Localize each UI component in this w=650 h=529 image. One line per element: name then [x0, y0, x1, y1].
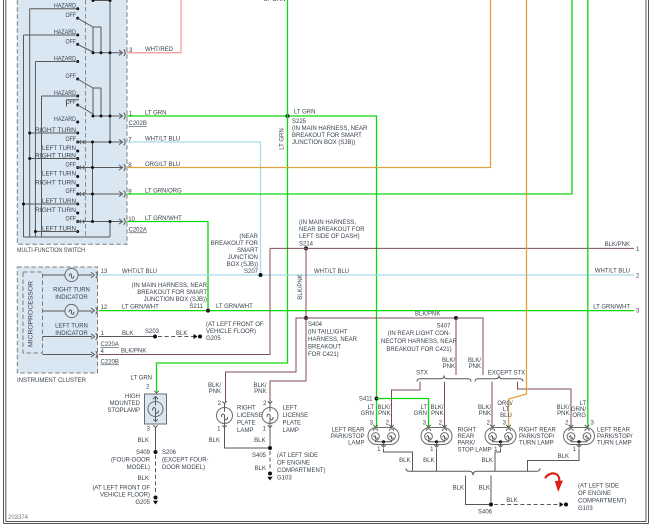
- svg-text:S404: S404: [308, 322, 323, 328]
- svg-text:GRN: GRN: [361, 411, 374, 417]
- wire pin10 to bottom bus: [109, 222, 111, 238]
- svg-text:LICENSE: LICENSE: [283, 413, 309, 419]
- svg-text:(AT LEFT SIDE: (AT LEFT SIDE: [578, 484, 619, 490]
- svg-text:LT GRN/WHT: LT GRN/WHT: [593, 305, 630, 311]
- switch internal vertical x93 upper: [92, 27, 94, 53]
- svg-text:PARK/: PARK/: [458, 441, 476, 447]
- svg-text:C202B: C202B: [129, 121, 147, 127]
- wire BLK dashed S409 to G205: [155, 455, 157, 494]
- brace rear lamp grounds: [406, 468, 540, 475]
- pin 8 row line: [77, 167, 123, 169]
- svg-text:RIGHT: RIGHT: [458, 428, 477, 434]
- splice S225: [286, 114, 290, 118]
- wire BLK brace to S406 right leg: [490, 476, 492, 505]
- wire BLK/PNK S407 right branch down to EXCEPT STX brace: [456, 318, 483, 375]
- rear lamp body at x=383.5: [368, 428, 399, 445]
- switch common rail B: [29, 9, 31, 237]
- svg-text:G103: G103: [277, 476, 292, 482]
- svg-text:2: 2: [636, 274, 640, 280]
- svg-text:4: 4: [101, 349, 105, 355]
- pin 10 connector arrow: [119, 219, 123, 224]
- pin 1 connector arrow: [119, 113, 123, 118]
- wire BLK/PNK S404 stub to right license plate lamp: [226, 318, 307, 403]
- svg-text:REAR: REAR: [458, 434, 475, 440]
- svg-text:BLK: BLK: [558, 454, 569, 460]
- svg-text:LAMP: LAMP: [283, 428, 299, 434]
- svg-text:VEHICLE FLOOR): VEHICLE FLOOR): [206, 329, 256, 335]
- svg-text:WHT/RED: WHT/RED: [145, 47, 174, 53]
- svg-text:MICROPROCESSOR: MICROPROCESSOR: [29, 280, 35, 347]
- svg-text:PARK/STOP/: PARK/STOP/: [597, 434, 633, 440]
- svg-text:BLK: BLK: [254, 438, 265, 444]
- svg-text:(EXCEPT FOUR-: (EXCEPT FOUR-: [162, 458, 209, 464]
- svg-text:BLK/PNK: BLK/PNK: [121, 349, 146, 355]
- svg-text:PNK: PNK: [431, 411, 443, 417]
- wire LT GRN S225 branch to high mounted stoplamp: [157, 0, 288, 392]
- svg-text:BLK: BLK: [209, 438, 220, 444]
- svg-text:BLK/: BLK/: [208, 383, 221, 389]
- svg-text:BLK: BLK: [453, 486, 464, 492]
- svg-text:12: 12: [101, 305, 108, 311]
- svg-text:TURN LAMP: TURN LAMP: [597, 441, 632, 447]
- svg-text:BREAKOUT FOR C421): BREAKOUT FOR C421): [386, 347, 451, 353]
- svg-text:NECTOR HARNESS, NEAR: NECTOR HARNESS, NEAR: [381, 339, 458, 345]
- pin 9 connector arrow: [119, 191, 123, 196]
- cluster pin 4 connector: [91, 352, 95, 357]
- splice S411: [375, 397, 379, 401]
- svg-text:3: 3: [591, 420, 595, 426]
- svg-text:(IN MAIN HARNESS, NEAR: (IN MAIN HARNESS, NEAR: [132, 283, 208, 289]
- svg-text:OFF: OFF: [66, 74, 77, 80]
- svg-text:HIGH: HIGH: [125, 394, 140, 400]
- svg-text:S203: S203: [145, 329, 160, 335]
- svg-text:S211: S211: [189, 304, 203, 310]
- svg-text:S409: S409: [136, 450, 151, 456]
- high mounted stoplamp: [145, 394, 167, 424]
- wire BLK lamp1 ground leg: [384, 449, 413, 472]
- pin 1 row line: [93, 115, 122, 117]
- svg-text:SMART: SMART: [237, 248, 258, 254]
- ground G205 at left front of vehicle floor: [194, 334, 198, 339]
- svg-text:WHT/LT BLU: WHT/LT BLU: [145, 137, 180, 143]
- wire BLK/PNK EXCEPT STX brace to left rear p/s/t lamp pin 2: [518, 382, 572, 427]
- svg-text:JUNCTION: JUNCTION: [228, 255, 258, 261]
- svg-text:TURN LAMP: TURN LAMP: [519, 441, 554, 447]
- svg-text:LEFT REAR: LEFT REAR: [597, 428, 631, 434]
- wire BLK dashed S405 to G103: [269, 451, 271, 470]
- rear lamp body at x=579: [564, 428, 595, 445]
- splice S211: [206, 309, 210, 313]
- wire BLK right license lamp to S405: [225, 428, 271, 448]
- switch bottom bus: [24, 236, 111, 238]
- svg-text:BLK: BLK: [176, 331, 187, 337]
- svg-text:DOOR MODEL): DOOR MODEL): [162, 465, 205, 471]
- switch top remnant: [93, 0, 110, 2]
- switch internal vertical x93 mid: [92, 88, 94, 116]
- svg-text:S411: S411: [359, 397, 373, 403]
- cluster pin 1 connector: [91, 334, 95, 339]
- svg-text:LT GRN: LT GRN: [145, 111, 166, 117]
- wire BLK/PNK cluster pin4 to S214: [99, 248, 270, 354]
- svg-text:1: 1: [101, 331, 105, 337]
- svg-text:BREAKOUT FOR SMART: BREAKOUT FOR SMART: [137, 290, 207, 296]
- svg-text:BREAKOUT: BREAKOUT: [308, 345, 341, 351]
- svg-text:S225: S225: [292, 119, 307, 125]
- svg-text:PNK: PNK: [443, 364, 455, 370]
- wire WHT/LT BLU from pin 7: [127, 142, 261, 275]
- svg-text:(FOUR-DOOR: (FOUR-DOOR: [111, 458, 151, 464]
- svg-text:1: 1: [377, 447, 381, 453]
- svg-text:BLK: BLK: [138, 438, 149, 444]
- svg-text:LEFT: LEFT: [283, 406, 298, 412]
- svg-text:S214: S214: [299, 241, 314, 247]
- svg-text:BLU: BLU: [500, 413, 512, 419]
- page frame right border: [648, 0, 650, 524]
- microprocessor block: [23, 272, 43, 353]
- wire LT GRN S411 branch to right rear lamp pin 3: [377, 399, 429, 428]
- svg-text:2: 2: [263, 401, 267, 407]
- svg-text:BOX (SJB)): BOX (SJB)): [227, 262, 258, 268]
- svg-text:1: 1: [636, 247, 640, 253]
- switch common rail C: [34, 62, 36, 238]
- svg-text:LT GRN/WHT: LT GRN/WHT: [145, 216, 182, 222]
- svg-text:G103: G103: [578, 506, 593, 512]
- svg-text:C202A: C202A: [129, 228, 147, 234]
- svg-text:MODEL): MODEL): [127, 465, 150, 471]
- svg-text:WHT/LT BLU: WHT/LT BLU: [122, 269, 157, 275]
- pin 9 row line: [77, 193, 123, 195]
- svg-text:S406: S406: [478, 510, 493, 516]
- wire LT GRN/ORG from pin 9: [127, 0, 573, 194]
- wire BLK dashed S203 to G205: [158, 336, 194, 338]
- svg-text:ORG/LT BLU: ORG/LT BLU: [145, 162, 180, 168]
- svg-text:S207: S207: [244, 269, 259, 275]
- svg-text:OF ENGINE: OF ENGINE: [578, 491, 611, 497]
- svg-text:JUNCTION BOX (SJB)): JUNCTION BOX (SJB)): [292, 140, 355, 146]
- svg-text:MULTI-FUNCTION SWITCH: MULTI-FUNCTION SWITCH: [17, 248, 85, 254]
- svg-text:PNK: PNK: [209, 389, 221, 395]
- splice S405: [268, 446, 272, 450]
- wire BLK lamp4 ground leg: [528, 449, 580, 472]
- pin 10 row line: [77, 221, 123, 223]
- multi-function switch inner dashed divider: [85, 0, 87, 237]
- svg-text:LT GRN/WHT: LT GRN/WHT: [122, 305, 159, 311]
- svg-text:PNK: PNK: [479, 411, 491, 417]
- left turn indicator lamp: [43, 310, 65, 312]
- instrument cluster housing: [17, 267, 97, 373]
- splice S407: [454, 316, 458, 320]
- svg-text:C220B: C220B: [101, 360, 119, 366]
- splice S409 / S206: [154, 450, 158, 454]
- svg-text:RIGHT: RIGHT: [237, 406, 256, 412]
- cluster pin 13 connector: [91, 272, 95, 277]
- cluster pin 12 connector: [91, 308, 95, 313]
- svg-text:VEHICLE FLOOR): VEHICLE FLOOR): [100, 493, 150, 499]
- svg-text:(AT LEFT FRONT OF: (AT LEFT FRONT OF: [206, 322, 264, 328]
- svg-text:LAMP: LAMP: [237, 428, 253, 434]
- svg-text:(IN MAIN HARNESS, NEAR: (IN MAIN HARNESS, NEAR: [292, 126, 368, 132]
- wire BLK/PNK EXCEPT STX brace to right rear p/s/t lamp pin 2: [491, 382, 493, 427]
- svg-text:1: 1: [573, 447, 577, 453]
- svg-text:LT GRN: LT GRN: [280, 128, 286, 149]
- wire BLK/PNK STX brace to right rear lamp pin 2: [444, 382, 446, 427]
- svg-text:WHT/LT BLU: WHT/LT BLU: [595, 269, 630, 275]
- wire BLK/PNK S407 down to STX brace: [455, 318, 457, 375]
- svg-text:LT GRN: LT GRN: [264, 0, 285, 3]
- wire LT GRN/ORG down to left rear p/s/t lamp pin 3: [587, 0, 589, 427]
- svg-text:OFF: OFF: [66, 13, 77, 19]
- wire ORG/LT BLU from pin 8: [127, 0, 491, 168]
- pin 7 connector arrow: [119, 139, 123, 144]
- svg-text:(AT LEFT SIDE: (AT LEFT SIDE: [277, 453, 318, 459]
- svg-text:BLK/: BLK/: [253, 383, 266, 389]
- svg-text:OF ENGINE: OF ENGINE: [277, 461, 310, 467]
- svg-text:LEFT REAR: LEFT REAR: [332, 428, 366, 434]
- svg-text:EXCEPT STX: EXCEPT STX: [488, 371, 525, 377]
- svg-text:G205: G205: [135, 500, 150, 506]
- svg-text:LEFT SIDE OF DASH): LEFT SIDE OF DASH): [299, 234, 360, 240]
- svg-text:2: 2: [146, 385, 150, 391]
- svg-text:BLK: BLK: [482, 458, 493, 464]
- svg-text:OFF: OFF: [66, 216, 77, 222]
- switch wiper rail x92.5 lower: [92, 142, 94, 222]
- multi-function switch S1 housing: [17, 0, 127, 244]
- svg-text:1: 1: [263, 427, 267, 433]
- wire WHT/LT BLU cluster pin13 to right edge pin 2: [99, 274, 634, 276]
- svg-text:LT GRN: LT GRN: [131, 376, 152, 382]
- wire ORG/LT BLU down to right rear p/s/t lamp pin 3: [509, 0, 527, 427]
- svg-text:BLK/PNK: BLK/PNK: [415, 312, 440, 318]
- ground G205 at left front of vehicle floor (stoplamp): [154, 496, 158, 500]
- wire BLK lamp3 ground leg: [495, 449, 501, 472]
- svg-text:LEFT TURN: LEFT TURN: [55, 324, 88, 330]
- svg-text:3: 3: [147, 427, 151, 433]
- svg-text:COMPARTMENT): COMPARTMENT): [277, 468, 325, 474]
- svg-text:LT GRN: LT GRN: [294, 109, 315, 115]
- page frame left border: [3, 0, 5, 524]
- svg-text:PLATE: PLATE: [283, 421, 302, 427]
- wire WHT/RED from pin 3: [127, 0, 182, 53]
- svg-text:PNK: PNK: [254, 389, 266, 395]
- pin 3 connector arrow: [119, 50, 123, 55]
- pin 8 connector arrow: [119, 165, 123, 170]
- svg-text:BLK/PNK: BLK/PNK: [605, 242, 630, 248]
- brace STX group: [417, 375, 471, 381]
- rear lamp body at x=436.5: [421, 428, 452, 445]
- svg-text:PLATE: PLATE: [237, 421, 256, 427]
- svg-text:S405: S405: [252, 453, 267, 459]
- svg-text:RIGHT TURN: RIGHT TURN: [35, 208, 76, 214]
- svg-text:3: 3: [636, 309, 640, 315]
- wire BLK stoplamp to S409: [155, 428, 157, 452]
- wire BLK/PNK STX brace to left rear lamp pin 2: [392, 382, 421, 427]
- wire BLK brace to S406 left leg: [466, 476, 492, 505]
- splice S207: [259, 273, 263, 277]
- svg-text:OFF: OFF: [66, 100, 77, 106]
- svg-text:ORG: ORG: [572, 413, 586, 419]
- svg-text:STOPLAMP: STOPLAMP: [107, 408, 140, 414]
- svg-text:BLK: BLK: [479, 486, 490, 492]
- svg-text:BLK: BLK: [122, 331, 133, 337]
- svg-text:LEFT TURN: LEFT TURN: [42, 171, 76, 177]
- svg-text:LAMP: LAMP: [348, 441, 364, 447]
- wire BLK lamp2 ground leg: [436, 449, 438, 472]
- svg-text:203374: 203374: [8, 515, 29, 521]
- wire BLK dashed S406 to G103: [494, 504, 559, 506]
- svg-text:RIGHT TURN: RIGHT TURN: [53, 288, 90, 294]
- rear lamp body at x=500.5: [485, 428, 516, 445]
- svg-text:OFF: OFF: [66, 189, 77, 195]
- wire BLK left license lamp to S405: [269, 428, 271, 448]
- svg-text:G205: G205: [206, 336, 221, 342]
- svg-text:OFF: OFF: [66, 162, 77, 168]
- svg-text:S206: S206: [162, 450, 177, 456]
- svg-text:(AT LEFT FRONT OF: (AT LEFT FRONT OF: [92, 486, 150, 492]
- svg-text:(IN MAIN HARNESS,: (IN MAIN HARNESS,: [299, 220, 356, 226]
- red annotation arrow to G103: [546, 473, 560, 482]
- svg-text:WHT/LT BLU: WHT/LT BLU: [314, 269, 349, 275]
- svg-text:BREAKOUT FOR: BREAKOUT FOR: [211, 241, 259, 247]
- splice S404: [304, 316, 308, 320]
- switch internal jog to x101 upper: [93, 26, 101, 28]
- svg-text:BLK: BLK: [138, 476, 149, 482]
- svg-text:(NEAR: (NEAR: [239, 234, 258, 240]
- svg-text:RIGHT TURN: RIGHT TURN: [35, 180, 76, 186]
- svg-text:1: 1: [217, 427, 221, 433]
- svg-text:S407: S407: [436, 324, 451, 330]
- svg-text:OFF: OFF: [66, 137, 77, 143]
- wire BLK/PNK S214 left branch to x270: [270, 247, 306, 249]
- detent bracket at OFF row: [67, 100, 80, 107]
- svg-text:BLK: BLK: [399, 458, 410, 464]
- svg-text:INDICATOR: INDICATOR: [55, 295, 88, 301]
- wire BLK/PNK S404 to S407: [306, 317, 456, 319]
- svg-text:BLK: BLK: [506, 498, 517, 504]
- wire BLK cluster pin1 to S203: [99, 336, 155, 338]
- svg-text:PARK/STOP/: PARK/STOP/: [519, 434, 555, 440]
- ground G103 at left side of engine compartment (license lamps): [268, 472, 272, 476]
- svg-text:HARNESS, NEAR: HARNESS, NEAR: [308, 337, 358, 343]
- splice S203: [153, 335, 157, 339]
- svg-text:GRN: GRN: [414, 411, 427, 417]
- svg-text:LT GRN/ORG: LT GRN/ORG: [145, 189, 182, 195]
- splice S214: [304, 246, 308, 250]
- switch common rail A: [23, 35, 25, 237]
- svg-text:PNK: PNK: [378, 411, 390, 417]
- stoplamp pin 3 exit: [153, 425, 157, 427]
- svg-text:STX: STX: [416, 371, 428, 377]
- pin 3 row line: [93, 52, 122, 54]
- svg-text:HAZARD: HAZARD: [54, 117, 77, 123]
- svg-text:(IN REAR LIGHT CON-: (IN REAR LIGHT CON-: [388, 331, 451, 337]
- svg-text:PNK: PNK: [469, 364, 481, 370]
- svg-text:LEFT TURN: LEFT TURN: [42, 146, 76, 152]
- svg-text:JUNCTION BOX (SJB)): JUNCTION BOX (SJB)): [144, 297, 207, 303]
- wire BLK/PNK S404 down to left license plate lamp: [270, 318, 306, 403]
- svg-text:C220A: C220A: [101, 342, 119, 348]
- svg-text:MOUNTED: MOUNTED: [110, 401, 141, 407]
- ground G103 at left side of engine compartment (rear lamps): [560, 502, 564, 507]
- svg-text:PARK/STOP: PARK/STOP: [331, 434, 365, 440]
- svg-text:COMPARTMENT): COMPARTMENT): [578, 499, 626, 505]
- brace EXCEPT STX group: [475, 375, 523, 381]
- microprocessor leads to pins 1 and 4: [43, 336, 93, 338]
- svg-text:FOR C421): FOR C421): [308, 352, 339, 358]
- svg-text:BLK: BLK: [255, 466, 266, 472]
- svg-text:PNK: PNK: [557, 411, 569, 417]
- right turn indicator lamp: [43, 274, 65, 276]
- svg-text:13: 13: [101, 269, 108, 275]
- svg-text:BLK/PNK: BLK/PNK: [298, 274, 304, 299]
- svg-text:RIGHT REAR: RIGHT REAR: [519, 428, 557, 434]
- wire LT GRN/WHT cluster pin12 to right edge pin 3: [99, 310, 634, 312]
- wire LT GRN from pin 1 to S411 and rear lamp: [127, 116, 377, 427]
- switch internal jog to x101 mid: [93, 87, 101, 89]
- pin 7 row line: [77, 141, 123, 143]
- svg-text:INSTRUMENT CLUSTER: INSTRUMENT CLUSTER: [17, 378, 87, 384]
- page frame bottom border: [4, 523, 649, 525]
- switch common rail D: [41, 96, 43, 237]
- svg-text:LT GRN/WHT: LT GRN/WHT: [216, 304, 253, 310]
- svg-text:OFF: OFF: [66, 39, 77, 45]
- svg-text:STOP LAMP: STOP LAMP: [458, 447, 492, 453]
- svg-text:1: 1: [430, 447, 434, 453]
- svg-text:BREAKOUT FOR SMART: BREAKOUT FOR SMART: [292, 133, 362, 139]
- svg-text:LICENSE: LICENSE: [237, 413, 263, 419]
- svg-text:BLK: BLK: [423, 458, 434, 464]
- svg-text:NEAR BREAKOUT FOR: NEAR BREAKOUT FOR: [299, 227, 365, 233]
- wire LT GRN/WHT from pin 10 to S211: [127, 222, 209, 311]
- svg-text:2: 2: [218, 401, 222, 407]
- splice S406: [489, 503, 493, 507]
- wire BLK/PNK S214 to right edge pin 1: [306, 247, 634, 249]
- switch internal vertical x110 upper: [109, 1, 111, 143]
- wire BLK/PNK S214 down to S404: [305, 248, 307, 318]
- svg-text:(IN TAILLIGHT: (IN TAILLIGHT: [308, 330, 348, 336]
